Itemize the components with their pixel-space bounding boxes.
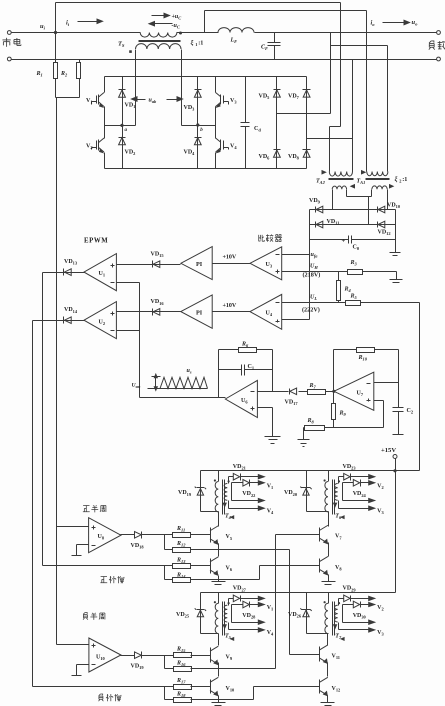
wire U10 plus input xyxy=(57,644,89,646)
wire cross link y45.5 xyxy=(331,45,388,47)
svg-text:U3: U3 xyxy=(266,262,273,269)
label 正半周 xyxy=(83,505,106,512)
wire R16 node to V7 base link xyxy=(219,668,276,670)
wire sawtooth bus xyxy=(140,283,226,398)
svg-text:U4: U4 xyxy=(266,311,273,318)
resistor R16 xyxy=(165,656,219,672)
capacitor C2 xyxy=(393,408,414,435)
transformer TS primary winding xyxy=(129,44,181,53)
node ui (dot at x=55.5) xyxy=(54,31,57,34)
diode VD9 xyxy=(309,198,323,213)
resistor R14 xyxy=(165,566,219,583)
label 负半周 xyxy=(83,613,105,620)
svg-text:U10: U10 xyxy=(96,655,106,662)
wire V10 emitter xyxy=(218,696,220,703)
diode VD16 xyxy=(117,299,181,315)
diode VD4 xyxy=(184,126,202,169)
svg-text:C0: C0 xyxy=(353,245,360,252)
svg-text:VD11: VD11 xyxy=(327,219,340,226)
pulse transformer T5 primary xyxy=(214,593,219,634)
wire R1-R2 bottom junction xyxy=(56,97,80,99)
transistor V6 xyxy=(210,557,233,575)
label U_sm amplitude xyxy=(132,374,161,390)
svg-text:R16: R16 xyxy=(176,661,186,668)
diode VD5 xyxy=(259,77,281,114)
svg-text:VD13: VD13 xyxy=(64,259,78,266)
transformer TA2 core xyxy=(329,179,354,180)
wire mains line bottom (neutral) xyxy=(12,59,439,61)
wire rectifier row3 xyxy=(310,239,396,241)
wire mains line top xyxy=(12,32,141,34)
op-amp U6 sawtooth xyxy=(225,380,257,417)
transistor V8 xyxy=(320,556,343,574)
wire R8 line xyxy=(325,427,384,429)
svg-text:+15V: +15V xyxy=(381,447,396,454)
wire U2 minus to sawtooth xyxy=(117,330,140,332)
wire +15V rail xyxy=(201,444,420,471)
svg-text:V7: V7 xyxy=(335,534,342,541)
svg-text:U7: U7 xyxy=(357,391,364,398)
resistor R3 xyxy=(348,260,397,275)
wire TA1 right drop xyxy=(387,46,389,172)
svg-text:VD20: VD20 xyxy=(284,490,298,497)
op-amp U1 EPWM upper xyxy=(84,254,116,291)
wire U4 minus 222V line xyxy=(282,295,346,314)
diode VD7 xyxy=(288,77,311,139)
gate lead 2 row2 xyxy=(343,480,384,501)
svg-text:VD24: VD24 xyxy=(353,491,367,498)
label EPWM xyxy=(84,238,108,245)
svg-text:Cd: Cd xyxy=(254,126,261,133)
wire V9-V10 chain xyxy=(218,663,220,677)
svg-text:-uC: -uC xyxy=(172,23,180,30)
label 负补偿 xyxy=(99,694,122,701)
wire U6 plus ground xyxy=(258,408,281,444)
diode VD15 xyxy=(117,251,181,267)
label +uc arrow xyxy=(152,13,182,20)
pulse transformer T7 secondary xyxy=(335,602,341,622)
svg-text:VD12: VD12 xyxy=(378,230,391,237)
resistor R1 xyxy=(36,33,58,98)
wire EPWM U2 output bus xyxy=(32,321,34,687)
wire U6 minus line xyxy=(258,391,289,393)
resistor R10 feedback xyxy=(334,348,399,392)
wire TA secondaries series link xyxy=(347,197,372,225)
wire rail B xyxy=(205,11,367,33)
transformer TA2 secondary xyxy=(332,185,354,210)
op-amp U8 xyxy=(89,518,121,553)
label 比较器 xyxy=(259,234,282,241)
transistor V2 IGBT xyxy=(86,126,105,169)
svg-text:+10V: +10V xyxy=(223,255,237,261)
svg-text:R14: R14 xyxy=(176,573,186,580)
svg-text:R7: R7 xyxy=(309,383,317,390)
svg-text:U2: U2 xyxy=(99,320,106,327)
svg-text:PI: PI xyxy=(196,261,203,268)
svg-text:R10: R10 xyxy=(358,355,368,362)
diode VD2 xyxy=(119,126,136,169)
svg-text:VD30: VD30 xyxy=(353,613,367,620)
resistor R8 xyxy=(304,418,325,431)
capacitor C1 xyxy=(219,364,273,376)
svg-text:VD19: VD19 xyxy=(178,490,192,497)
transistor V12 xyxy=(320,677,341,695)
svg-text:VD17: VD17 xyxy=(285,400,299,407)
svg-text:(222V): (222V) xyxy=(302,307,320,314)
wire bridge mid1 to uo xyxy=(277,113,331,115)
ground V12 emitter xyxy=(321,703,335,706)
svg-text:+uC: +uC xyxy=(172,14,182,21)
svg-text:VD27: VD27 xyxy=(233,586,247,593)
svg-text:V10: V10 xyxy=(226,686,236,693)
svg-text:V2: V2 xyxy=(377,605,384,612)
transformer TS series winding xyxy=(140,32,218,38)
label T7 xyxy=(335,634,342,641)
svg-text:ufa: ufa xyxy=(311,252,319,259)
diode VD12 xyxy=(378,221,391,236)
label turns ratio xi2:1 xyxy=(395,176,408,184)
svg-text:ξ: ξ xyxy=(191,40,194,48)
svg-text:V1: V1 xyxy=(267,483,274,490)
op-amp U7 xyxy=(334,372,374,410)
pulse transformer T4 core xyxy=(223,480,225,515)
diode VD1 xyxy=(119,77,136,126)
gate lead 1 row2 xyxy=(232,601,274,622)
resistor R13 xyxy=(43,558,211,569)
wire V7-V8 chain xyxy=(328,543,330,557)
wire U4 plus to ufa xyxy=(282,319,310,321)
net: mains input terminals 市电 xyxy=(2,31,20,61)
wire railB drop to TA1 xyxy=(366,11,368,172)
svg-text:VD21: VD21 xyxy=(233,464,246,471)
wire TS primary to node a xyxy=(135,50,137,126)
svg-text:R2: R2 xyxy=(60,71,68,78)
node a xyxy=(105,124,136,133)
svg-text:R5: R5 xyxy=(350,294,358,301)
wire bridge top rail xyxy=(105,76,307,78)
svg-text:R17: R17 xyxy=(176,678,186,685)
transistor V1 IGBT xyxy=(86,77,105,126)
pulse transformer T4 secondary xyxy=(224,480,230,500)
svg-text:R15: R15 xyxy=(176,647,186,654)
svg-text:R8: R8 xyxy=(307,418,315,425)
svg-text:V3: V3 xyxy=(230,98,237,105)
wire rectifier row1 xyxy=(310,209,396,211)
wire T4 primary to V5 collector xyxy=(218,512,220,527)
svg-text:VD10: VD10 xyxy=(387,203,401,210)
diode VD8 xyxy=(288,139,311,169)
wire U8 minus ground xyxy=(72,545,89,556)
node U7 summing xyxy=(332,390,335,393)
wire V12 base from R18 node xyxy=(219,687,320,700)
svg-text:R4: R4 xyxy=(344,287,352,294)
label VD28 xyxy=(242,613,256,620)
resistor R17 xyxy=(33,678,211,690)
label VD22 xyxy=(242,491,255,498)
node b xyxy=(182,123,216,133)
diode VD29 row1 xyxy=(339,586,375,606)
svg-text:V4: V4 xyxy=(267,508,274,515)
ground R3 xyxy=(390,272,403,283)
label i_i with arrow xyxy=(66,19,103,27)
svg-text:V4: V4 xyxy=(267,630,274,637)
wire mains sense bus xyxy=(56,98,58,645)
svg-text:VD2: VD2 xyxy=(125,150,136,157)
pulse transformer T6 core xyxy=(333,480,335,515)
transistor V7 xyxy=(320,525,343,543)
resistor R9 xyxy=(332,392,347,428)
svg-text:R3: R3 xyxy=(350,260,358,267)
svg-text:VD16: VD16 xyxy=(151,299,165,306)
wire lower drive rail xyxy=(201,592,396,594)
wire row3 xyxy=(343,498,375,502)
svg-text:VD19: VD19 xyxy=(131,664,145,671)
ground rectifier xyxy=(390,253,401,256)
gate lead 3 row4 xyxy=(334,623,385,641)
resistor R18 xyxy=(165,687,219,703)
diode VD11 xyxy=(316,219,340,228)
wire rectifier right leg xyxy=(395,210,397,253)
wire U8 plus input xyxy=(57,526,89,528)
svg-text:TA2: TA2 xyxy=(316,179,326,186)
ground V10 emitter xyxy=(212,703,226,706)
svg-text:R9: R9 xyxy=(339,411,347,418)
wire V12 emitter xyxy=(327,696,329,703)
diode VD14 xyxy=(33,307,85,323)
svg-text::1: :1 xyxy=(402,176,407,183)
wire R5 to +15V rail xyxy=(419,303,421,471)
wire railA drop to TA2 xyxy=(330,3,341,172)
wire U7 minus link xyxy=(374,350,399,408)
wire row3 xyxy=(232,620,265,624)
gate lead 2 row2 xyxy=(343,601,384,622)
label VD30 xyxy=(353,613,367,620)
wire uo sense drop xyxy=(330,33,332,114)
pulse transformer T6 secondary xyxy=(335,480,341,500)
svg-text:VD4: VD4 xyxy=(184,150,196,157)
pulse transformer T5 core xyxy=(223,602,225,636)
wire V11-V12 chain xyxy=(327,663,329,677)
gate lead 4 row4 xyxy=(223,501,274,519)
wire U4 output xyxy=(213,303,251,312)
wire row3 xyxy=(232,498,265,502)
svg-text:R11: R11 xyxy=(176,526,185,533)
svg-text:VD9: VD9 xyxy=(309,198,321,205)
svg-text:VD18: VD18 xyxy=(131,543,145,550)
wire V5 emitter to V11 base xyxy=(219,550,320,655)
svg-text:V12: V12 xyxy=(332,686,341,693)
transistor V11 xyxy=(320,645,341,663)
svg-text:TA1: TA1 xyxy=(357,179,366,186)
wire rail A (u_i top rail) xyxy=(56,3,341,33)
svg-text:R1: R1 xyxy=(36,71,43,78)
svg-text:VD29: VD29 xyxy=(343,586,357,593)
transistor V3 IGBT xyxy=(216,77,238,126)
svg-text:R12: R12 xyxy=(176,541,186,548)
wire V8 base from R14 node xyxy=(219,566,320,580)
label TA2 xyxy=(316,179,326,186)
wire V5-V6 chain xyxy=(218,544,220,557)
wire U6 feedback left leg xyxy=(218,350,220,398)
wire T6 primary to V7 collector xyxy=(328,512,330,527)
svg-text:1: 1 xyxy=(195,42,197,47)
ground V8 emitter xyxy=(322,582,336,585)
wire bridge bottom rail xyxy=(105,168,307,170)
wire U7 plus leg xyxy=(374,401,384,428)
diode VD19b xyxy=(121,652,174,671)
pulse transformer T7 core xyxy=(333,602,335,636)
svg-text:UL: UL xyxy=(310,295,317,302)
wire V7 base from R16 node xyxy=(276,535,320,669)
output terminals and load 负载 xyxy=(429,31,445,61)
capacitor CF xyxy=(261,33,281,60)
wire neutral drop to TA2 xyxy=(352,60,354,172)
wire +15V drop to lower rail xyxy=(395,471,397,593)
capacitor C0 xyxy=(342,236,360,252)
label u_ab arrows xyxy=(132,97,183,104)
op-amp U10 xyxy=(89,638,121,672)
svg-text:(218V): (218V) xyxy=(303,272,321,279)
resistor R7 xyxy=(299,383,333,395)
transistor V10 xyxy=(210,677,235,695)
label VD24 xyxy=(353,491,367,498)
resistor R5 xyxy=(346,294,420,306)
svg-text:V2: V2 xyxy=(86,144,93,151)
svg-text:LF: LF xyxy=(230,38,238,45)
svg-text:V3: V3 xyxy=(377,508,384,515)
diode VD18 xyxy=(121,532,173,550)
wire EPWM U1 output bus xyxy=(42,273,44,566)
diode VD10 xyxy=(378,203,401,213)
resistor R4 xyxy=(337,272,352,303)
wire row3 xyxy=(343,620,375,624)
label -uc arrow xyxy=(149,22,180,30)
svg-text::1: :1 xyxy=(198,40,203,47)
svg-text:VD8: VD8 xyxy=(288,154,300,161)
op-amp U4 xyxy=(250,294,282,329)
ground R8 xyxy=(298,428,310,447)
transistor V5 xyxy=(210,526,233,544)
transformer TS core xyxy=(139,41,181,42)
PI regulator lower xyxy=(181,295,212,328)
svg-text:VD15: VD15 xyxy=(151,251,165,258)
wire TS primary to node b xyxy=(181,50,183,126)
svg-text:CF: CF xyxy=(261,45,268,52)
svg-text:V1: V1 xyxy=(86,98,93,105)
pulse transformer T4 primary xyxy=(214,471,219,512)
svg-text:V3: V3 xyxy=(377,630,384,637)
zener diode VD26 xyxy=(288,593,329,634)
svg-text:UH: UH xyxy=(310,264,318,271)
transistor V9 xyxy=(210,646,233,664)
zener diode VD20 xyxy=(284,471,329,512)
svg-text:VD5: VD5 xyxy=(259,94,271,101)
svg-text:VD25: VD25 xyxy=(176,612,190,619)
label T5 xyxy=(225,634,232,641)
svg-text:VD23: VD23 xyxy=(343,464,357,471)
PI regulator upper xyxy=(181,247,212,280)
svg-text:VD1: VD1 xyxy=(125,103,136,110)
svg-text:V2: V2 xyxy=(377,483,384,490)
sawtooth waveform u_s xyxy=(148,368,208,389)
zener diode VD25 xyxy=(176,593,219,634)
wire U1 minus to sawtooth xyxy=(117,282,140,284)
svg-text:U8: U8 xyxy=(98,534,105,541)
svg-text:VD22: VD22 xyxy=(242,491,255,498)
diode VD17 xyxy=(285,388,299,406)
svg-text:V8: V8 xyxy=(335,565,342,572)
svg-text:V9: V9 xyxy=(226,655,233,662)
net ufa vertical xyxy=(310,210,319,320)
wire T5 primary to V9 collector xyxy=(218,634,220,646)
op-amp U2 EPWM lower xyxy=(84,302,116,339)
label 正补偿 xyxy=(100,576,124,583)
svg-text:R13: R13 xyxy=(176,558,186,565)
diode VD3 xyxy=(184,77,202,126)
svg-text:VD3: VD3 xyxy=(184,105,196,112)
ground V6 emitter xyxy=(212,582,226,585)
transformer TA2 primary xyxy=(322,171,352,176)
wire V6 emitter xyxy=(218,576,220,582)
wire rectifier row2 xyxy=(310,224,396,226)
wire U3 output xyxy=(213,255,251,264)
svg-text:V11: V11 xyxy=(332,653,341,660)
capacitor Cd xyxy=(241,77,262,169)
wire V8 emitter xyxy=(328,575,330,582)
diode VD21 row1 xyxy=(229,464,265,484)
svg-text:+: + xyxy=(342,238,346,245)
label T4 xyxy=(225,514,232,521)
svg-text:C1: C1 xyxy=(248,364,255,371)
wire U10 minus ground xyxy=(72,665,89,676)
svg-text:VD26: VD26 xyxy=(288,612,302,619)
label u_o xyxy=(412,19,419,27)
inductor LF xyxy=(218,28,437,45)
svg-text:R6: R6 xyxy=(241,342,249,349)
resistor R6 xyxy=(219,342,273,353)
op-amp U3 xyxy=(250,247,282,280)
power +15V terminal xyxy=(381,447,397,472)
pulse transformer T6 primary xyxy=(324,471,329,512)
gate lead 4 row4 xyxy=(223,623,274,641)
svg-text:V6: V6 xyxy=(226,565,233,572)
svg-text:R18: R18 xyxy=(176,692,186,699)
resistor R12 xyxy=(165,535,219,553)
svg-text:V4: V4 xyxy=(230,144,237,151)
resistor R15 xyxy=(174,647,211,658)
wire T7 primary to V11 collector xyxy=(327,634,329,646)
label TA1 xyxy=(357,179,366,186)
zener diode VD19 xyxy=(178,471,219,512)
wire bridge mid2 to neutral xyxy=(307,138,353,140)
diode VD6 xyxy=(259,114,281,169)
svg-text:uab: uab xyxy=(149,98,158,105)
diode VD23 row1 xyxy=(339,464,375,484)
svg-text:VD7: VD7 xyxy=(288,94,300,101)
diode VD27 row1 xyxy=(229,586,265,606)
svg-text:Usm: Usm xyxy=(132,383,142,390)
wire U6 feedback right leg xyxy=(272,350,274,392)
label u_i xyxy=(40,23,46,31)
svg-text:V5: V5 xyxy=(226,534,233,541)
label T6 xyxy=(335,514,342,521)
svg-text:EPWM: EPWM xyxy=(84,238,108,245)
svg-text:ξ: ξ xyxy=(395,176,398,184)
svg-text:us: us xyxy=(187,368,192,375)
transformer TA1 primary xyxy=(362,171,388,176)
svg-text:U6: U6 xyxy=(241,398,248,405)
transistor V4 IGBT xyxy=(216,126,238,169)
